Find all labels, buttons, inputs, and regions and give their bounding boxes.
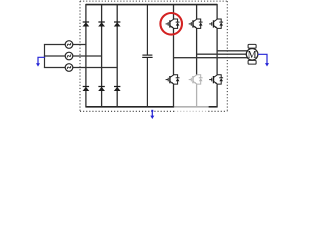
rectifier leg wire (phase b) [101, 5, 103, 107]
IGBT S3 (top leg b) [189, 19, 203, 28]
AC voltage source Vb [65, 52, 73, 60]
motor terminal block (bottom) [248, 60, 256, 64]
inverter leg b wire (upper) [196, 5, 198, 19]
DC- bus wire right segment [209, 106, 218, 108]
DC-link capacitor C1 plates [142, 55, 152, 57]
phase a feed wire [44, 44, 86, 46]
IGBT S2 (bottom leg c) [209, 75, 223, 84]
inverter leg b wire (middle) [196, 28, 198, 74]
blue probe arrow (motor output) [258, 54, 269, 66]
inverter leg a wire (lower) [173, 84, 175, 107]
rectifier leg wire (phase c) [116, 5, 118, 107]
source neutral bus wire [44, 45, 46, 68]
rectifier leg wire (phase a) [85, 4, 87, 108]
inverter leg c wire (middle) [216, 28, 218, 74]
rectifier diode D6 [114, 87, 121, 92]
converter subsystem dashed border [80, 1, 227, 111]
IGBT S5 (top leg c) [209, 19, 223, 28]
IGBT S4 (bottom leg a) [166, 75, 180, 84]
phase c feed wire [44, 67, 117, 69]
DC+ bus wire [86, 4, 217, 6]
fault highlight circle (red) around IGBT S1 [160, 13, 182, 35]
rectifier diode D3 [98, 22, 105, 27]
IGBT S1 (top leg a, faulted device) [166, 19, 180, 28]
phase A output wire (to motor) [217, 50, 248, 52]
inverter leg b wire (lower, grayed) [196, 84, 198, 107]
IGBT S6 (bottom leg b, grayed out) [189, 75, 203, 84]
inverter leg c wire (upper) [216, 4, 218, 19]
rectifier diode D2 [83, 87, 90, 92]
DC-link capacitor C1 stem [146, 5, 148, 107]
inverter leg a wire (middle) [173, 28, 175, 74]
DC- bus wire [86, 106, 174, 108]
blue probe arrow (DC- border port) [150, 110, 154, 119]
rectifier diode D1 [83, 22, 90, 27]
inverter leg a wire (upper) [173, 5, 175, 19]
rectifier diode D5 [114, 22, 121, 27]
phase C output wire (to motor) [174, 57, 248, 59]
inverter leg c wire (lower) [216, 84, 218, 107]
phase b feed wire [44, 55, 102, 57]
DC- bus wire grayed segment [174, 106, 209, 108]
blue probe arrow (source neutral) [36, 57, 45, 66]
phase B output wire (to motor) [197, 53, 247, 55]
AC voltage source Vc [65, 64, 73, 72]
motor M body [246, 49, 258, 61]
grayed segment of dashed border (below faulted leg) [174, 110, 208, 112]
motor terminal block (top) [248, 44, 256, 48]
rectifier diode D4 [98, 87, 105, 92]
svg-text:M: M [248, 50, 257, 61]
AC voltage source Va [65, 41, 73, 49]
